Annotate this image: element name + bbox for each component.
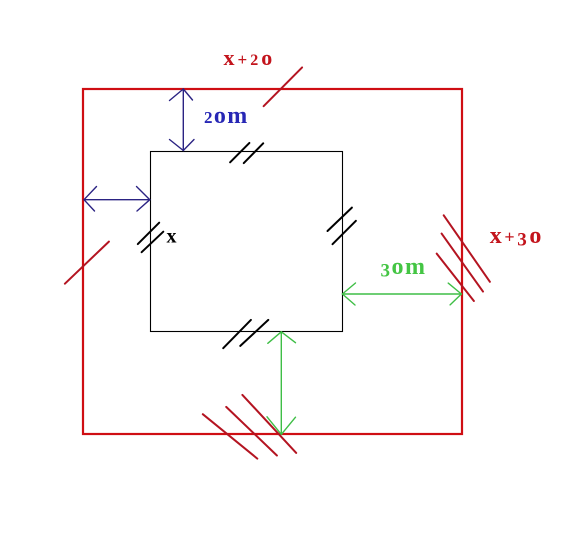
svg-text:x+3o: x+3o [490,223,544,251]
black ticks top edge [230,143,263,163]
outer red rectangle [83,89,462,434]
black ticks right edge [328,208,356,245]
blue vertical arrow 20m [170,89,195,151]
red slash left [65,242,109,284]
green horizontal arrow 30m [342,283,461,305]
inner black square [151,152,343,332]
blue horizontal arrow [84,187,150,212]
black ticks left edge [138,223,164,253]
red triple slashes right [437,215,490,301]
black ticks bottom edge [223,320,268,348]
red triple slashes bottom [203,395,296,459]
svg-text:x: x [167,225,177,247]
red slash top [264,67,303,106]
green vertical arrow bottom [267,332,296,435]
